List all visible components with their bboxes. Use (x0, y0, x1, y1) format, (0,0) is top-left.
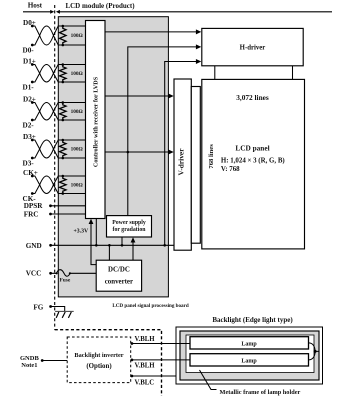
svg-text:Lamp: Lamp (241, 341, 257, 347)
arrow DC/DC to power supply (132, 242, 134, 261)
svg-text:Metallic frame of lamp holder: Metallic frame of lamp holder (220, 389, 301, 396)
svg-text:Backlight inverter: Backlight inverter (74, 352, 123, 359)
svg-text:FG: FG (33, 304, 43, 312)
svg-text:CK+: CK+ (23, 169, 38, 177)
V-driver to LCD bus (768 lines connector) (191, 87, 200, 244)
twisted pair wire D0+ (32, 26, 63, 45)
svg-text:VCC: VCC (26, 270, 42, 278)
wire D3- to controller (63, 157, 86, 159)
wire V.BLH to lamp1 (131, 343, 190, 345)
resistor 100ohm terminator for D0 pair (60, 26, 67, 45)
node D0- terminal (31, 44, 34, 47)
LCD panel box (202, 79, 305, 249)
lamp 1 box (190, 337, 309, 349)
H-driver to LCD bus left (214, 66, 216, 80)
wire D1+ to controller (63, 64, 86, 66)
svg-text:V.BLH: V.BLH (135, 336, 156, 343)
svg-text:converter: converter (105, 278, 133, 285)
resistor 100ohm terminator for CK pair (60, 176, 67, 194)
svg-text:100Ω: 100Ω (71, 182, 83, 188)
node D1+ terminal (31, 63, 34, 66)
resistor 100ohm terminator for D3 pair (60, 140, 67, 158)
controller U1 (Controller with receiver for LVDS) (86, 21, 106, 219)
node GNDB terminal (41, 359, 44, 362)
twisted pair wire D3- (32, 140, 63, 158)
junction D3 top (62, 139, 65, 142)
svg-text:V-driver: V-driver (177, 148, 186, 176)
svg-text:DPSR: DPSR (24, 202, 44, 210)
lamp 2 box (190, 354, 309, 366)
wire controller to H-driver (top) (105, 31, 197, 33)
svg-text:Controller with receiver for L: Controller with receiver for LVDS (93, 76, 100, 167)
svg-text:V.BLH: V.BLH (135, 363, 156, 370)
svg-text:768 lines: 768 lines (208, 144, 215, 169)
twisted pair wire D1- (32, 65, 63, 83)
twisted pair wire D0- (32, 26, 63, 45)
svg-text:D2-: D2- (23, 122, 35, 130)
svg-text:Fuse: Fuse (60, 278, 71, 284)
V-driver box (174, 79, 191, 250)
twisted pair wire CK+ (32, 176, 63, 194)
junction GND-power-supply (121, 244, 124, 247)
junction D2 bottom (62, 119, 65, 122)
metallic frame of lamp holder (gray frame) (180, 331, 319, 380)
svg-text:D0-: D0- (23, 47, 35, 55)
node D3- terminal (31, 157, 34, 160)
node FG terminal (49, 305, 52, 308)
backlight inverter box (dashed) (67, 337, 131, 383)
wire GNDB to inverter (42, 360, 67, 362)
node V.BLH 2 (131, 359, 134, 362)
svg-text:H-driver: H-driver (240, 45, 266, 52)
LCD module extent line with arrow (60, 11, 332, 13)
twisted pair wire D2- (32, 103, 63, 121)
svg-text:LCD panel: LCD panel (235, 144, 269, 153)
svg-text:LCD module (Product): LCD module (Product) (65, 2, 135, 10)
svg-text:100Ω: 100Ω (71, 109, 83, 115)
wire DPSR to controller (51, 205, 86, 207)
node FRC terminal (49, 213, 52, 216)
node V.BLC (131, 375, 134, 378)
H-driver box (202, 28, 303, 65)
node VCC terminal (49, 272, 52, 275)
resistor 100ohm terminator for D2 pair (60, 103, 67, 121)
wire GND riser to H-driver (165, 62, 197, 246)
DC/DC converter box (96, 260, 141, 291)
svg-text:V: 768: V: 768 (221, 166, 240, 173)
svg-text:3,072 lines: 3,072 lines (236, 93, 269, 102)
backlight outer box (176, 327, 323, 384)
junction D3 bottom (62, 157, 65, 160)
wire CK- to controller (63, 193, 86, 195)
node D3+ terminal (31, 139, 34, 142)
wire power supply ground drop (121, 237, 123, 245)
junction CK bottom (62, 192, 65, 195)
svg-text:for gradation: for gradation (113, 227, 147, 233)
wire D2- to controller (63, 119, 86, 121)
node D1- terminal (31, 81, 34, 84)
wire controller ground drop (95, 219, 97, 246)
svg-text:+3.3V: +3.3V (74, 228, 90, 234)
wire D0- to controller (63, 44, 86, 46)
svg-text:Host: Host (28, 2, 43, 10)
wire D0+ to controller (63, 25, 86, 27)
svg-text:D1-: D1- (23, 84, 35, 92)
svg-text:100Ω: 100Ω (71, 71, 83, 77)
wire power-rail riser to H-driver (128, 47, 197, 216)
fuse F1 (51, 270, 97, 277)
leader line to metallic frame (200, 370, 217, 390)
wire DCDC ground drop (108, 245, 110, 260)
twisted pair wire D1+ (32, 65, 63, 83)
H-driver to LCD bus right (292, 66, 294, 80)
junction D1 bottom (62, 81, 65, 84)
svg-text:D3-: D3- (23, 160, 35, 168)
host extent line with arrow (23, 11, 51, 13)
junction GND-controller (95, 244, 98, 247)
node CK- terminal (31, 192, 34, 195)
node D2- terminal (31, 119, 34, 122)
node D0+ terminal (31, 25, 34, 28)
wire D1- to controller (63, 81, 86, 83)
junction GND-Hdriver-branch (163, 244, 166, 247)
svg-text:100Ω: 100Ω (71, 33, 83, 39)
junction CK top (62, 175, 65, 178)
svg-text:FRC: FRC (24, 210, 39, 218)
wire controller to V-driver (upper) (105, 95, 170, 97)
wire controller to V-driver (lower) (105, 151, 170, 153)
svg-text:DC/DC: DC/DC (108, 266, 130, 273)
junction D2 top (62, 101, 65, 104)
wire CK+ to controller (63, 175, 86, 177)
wire V.BLH to lamp2 (131, 359, 190, 361)
svg-text:GND: GND (26, 242, 42, 250)
node D2+ terminal (31, 101, 34, 104)
junction D0 top (62, 25, 65, 28)
svg-text:Note1: Note1 (21, 362, 37, 369)
lamp series connection loop (309, 343, 320, 360)
twisted pair wire D3+ (32, 140, 63, 158)
node DPSR terminal (49, 204, 52, 207)
twisted pair wire CK- (32, 176, 63, 194)
wire FRC to controller (51, 213, 86, 215)
junction GND-DCDC (108, 244, 111, 247)
svg-text:Power supply: Power supply (112, 220, 146, 226)
power supply for gradation box (107, 216, 152, 237)
node CK+ terminal (31, 175, 34, 178)
wire GND rail (51, 244, 174, 246)
svg-text:(Option): (Option) (86, 363, 111, 370)
svg-text:Lamp: Lamp (241, 358, 257, 364)
ground symbol (chassis) (55, 310, 74, 312)
svg-text:V.BLC: V.BLC (135, 379, 155, 386)
host/module boundary dashed line (54, 5, 56, 330)
wire V.BLC to frame (131, 375, 176, 377)
junction power riser / V-driver wire (127, 151, 130, 154)
wire D2+ to controller (63, 102, 86, 104)
resistor 100ohm terminator for D1 pair (60, 65, 67, 83)
twisted pair wire D2+ (32, 103, 63, 121)
node V.BLH 1 (131, 342, 134, 345)
svg-text:Backlight (Edge light type): Backlight (Edge light type) (212, 316, 293, 324)
svg-text:100Ω: 100Ω (71, 147, 83, 153)
wire +3.3V from DC/DC to controller (91, 223, 96, 265)
LCD panel signal processing board (gray region) (58, 17, 168, 297)
wire D3+ to controller (63, 139, 86, 141)
svg-text:H: 1,024 × 3 (R, G, B): H: 1,024 × 3 (R, G, B) (221, 157, 285, 164)
junction D1 top (62, 63, 65, 66)
wire FG (51, 307, 65, 312)
svg-text:LCD panel signal processing bo: LCD panel signal processing board (112, 303, 188, 309)
junction D0 bottom (62, 44, 65, 47)
node GND terminal (49, 244, 52, 247)
